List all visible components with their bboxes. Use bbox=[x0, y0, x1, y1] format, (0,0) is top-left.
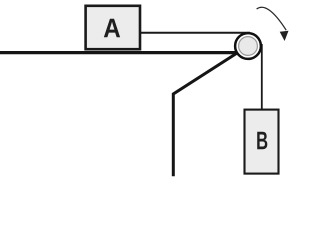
string from block A over pulley bbox=[140, 32, 250, 34]
table edge (diagonal + vertical) bbox=[173, 46, 248, 176]
string from pulley to block B bbox=[261, 44, 263, 110]
pulley inner hub bbox=[239, 37, 258, 56]
label A bbox=[104, 19, 120, 38]
block B bbox=[245, 110, 279, 174]
rotation arrow head bbox=[280, 31, 289, 41]
label B bbox=[257, 132, 267, 149]
table surface (horizontal top line) bbox=[0, 51, 239, 54]
pulley (outer wheel) bbox=[235, 33, 261, 59]
block A bbox=[86, 6, 140, 49]
rotation arrow (clockwise arc) bbox=[257, 7, 287, 30]
